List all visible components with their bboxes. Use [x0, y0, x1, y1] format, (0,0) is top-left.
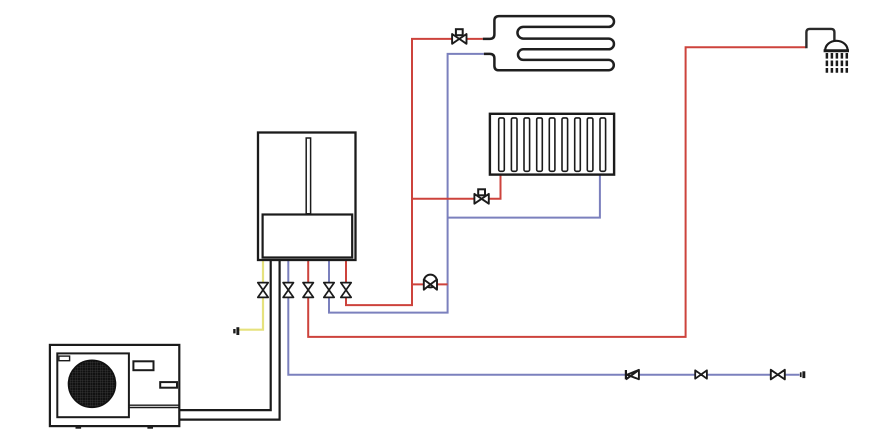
valve V4 (return shut-off): [324, 283, 334, 298]
valve V7 (cold water bowtie): [771, 370, 785, 380]
tank: coil slot pipe: [306, 138, 310, 214]
plug: cold water line end cap: [800, 371, 805, 378]
shower: supply pipe: [806, 29, 834, 48]
heat pump: vent grille B: [160, 382, 177, 388]
heat pump: fan disc: [69, 360, 116, 407]
check valve CV1 (cold water): [626, 370, 639, 380]
tank: lower vessel: [263, 215, 353, 258]
valve V1 (yellow line shut-off): [258, 283, 268, 298]
heat pump: fan compartment: [57, 353, 129, 417]
radiator fins: [499, 118, 606, 171]
valve V2 (cold water shut-off): [283, 283, 293, 298]
heat pump: base plate double line: [129, 405, 179, 407]
wire: red pump bypass: [412, 283, 448, 285]
wire: black pipe heat pump upper: [179, 260, 270, 411]
motorized valve M1 (floor heating): [452, 29, 466, 44]
wire: blue heating return (tank to floor coil): [329, 54, 484, 313]
wire: blue radiator return branch: [448, 174, 600, 218]
valve V3 (DHW shut-off): [303, 283, 313, 298]
wire: red DHW line (tank to shower): [308, 47, 806, 337]
wire: yellow power cable: [239, 260, 263, 330]
valve V5 (supply shut-off): [341, 283, 351, 298]
valve V6 (cold water bowtie): [695, 370, 707, 378]
wire: blue cold water main: [288, 260, 799, 375]
heat pump: foot left: [76, 426, 82, 429]
wire: red heating supply riser: [346, 39, 483, 305]
plug: yellow cable connector: [233, 327, 239, 335]
floor heating coil: [483, 16, 614, 70]
shower: head dome: [824, 41, 849, 51]
heat pump: vent grille A: [133, 361, 153, 370]
wire: red radiator supply branch: [412, 174, 501, 199]
motorized valve M2 (radiator): [474, 189, 488, 203]
tank: indoor unit cabinet: [258, 133, 356, 261]
heat pump: outdoor unit body: [50, 345, 179, 426]
shower: spray dashes: [827, 53, 847, 73]
wire: black pipe heat pump lower: [179, 260, 279, 420]
pump P1 (circulation pump): [424, 275, 437, 290]
radiator body: [490, 114, 614, 175]
heat pump: foot right: [147, 426, 153, 429]
heat pump: label plate: [59, 356, 70, 361]
